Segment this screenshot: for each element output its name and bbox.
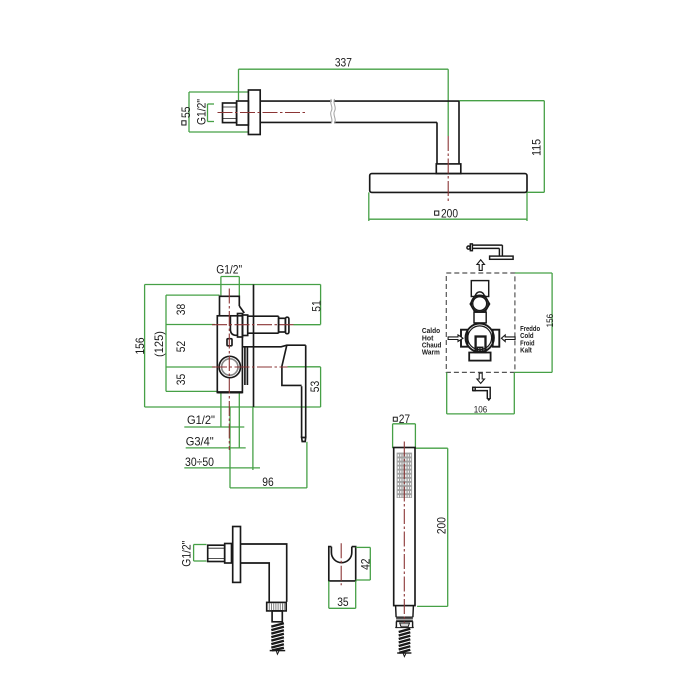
svg-text:G1/2": G1/2" — [180, 541, 194, 567]
svg-text:27: 27 — [399, 412, 411, 426]
svg-text:55: 55 — [179, 106, 193, 118]
svg-text:35: 35 — [337, 595, 349, 609]
svg-text:G1/2": G1/2" — [187, 413, 215, 427]
svg-text:38: 38 — [174, 304, 188, 316]
svg-text:200: 200 — [434, 517, 448, 534]
svg-text:G1/2": G1/2" — [195, 99, 209, 125]
svg-text:115: 115 — [530, 139, 544, 156]
svg-text:Warm: Warm — [422, 348, 440, 357]
svg-text:337: 337 — [335, 56, 352, 70]
svg-text:G3/4": G3/4" — [186, 435, 214, 449]
svg-text:156: 156 — [545, 314, 556, 328]
svg-text:53: 53 — [308, 381, 322, 393]
svg-text:Kalt: Kalt — [520, 346, 532, 355]
svg-text:(125): (125) — [152, 331, 166, 357]
svg-text:106: 106 — [474, 405, 488, 416]
svg-text:200: 200 — [441, 206, 458, 220]
svg-text:35: 35 — [174, 374, 188, 386]
svg-text:96: 96 — [262, 475, 274, 489]
svg-text:156: 156 — [133, 337, 147, 354]
svg-text:51: 51 — [310, 300, 324, 312]
svg-text:30÷50: 30÷50 — [185, 455, 214, 469]
svg-text:G1/2": G1/2" — [216, 263, 242, 277]
svg-text:42: 42 — [359, 558, 373, 570]
svg-text:52: 52 — [174, 341, 188, 353]
